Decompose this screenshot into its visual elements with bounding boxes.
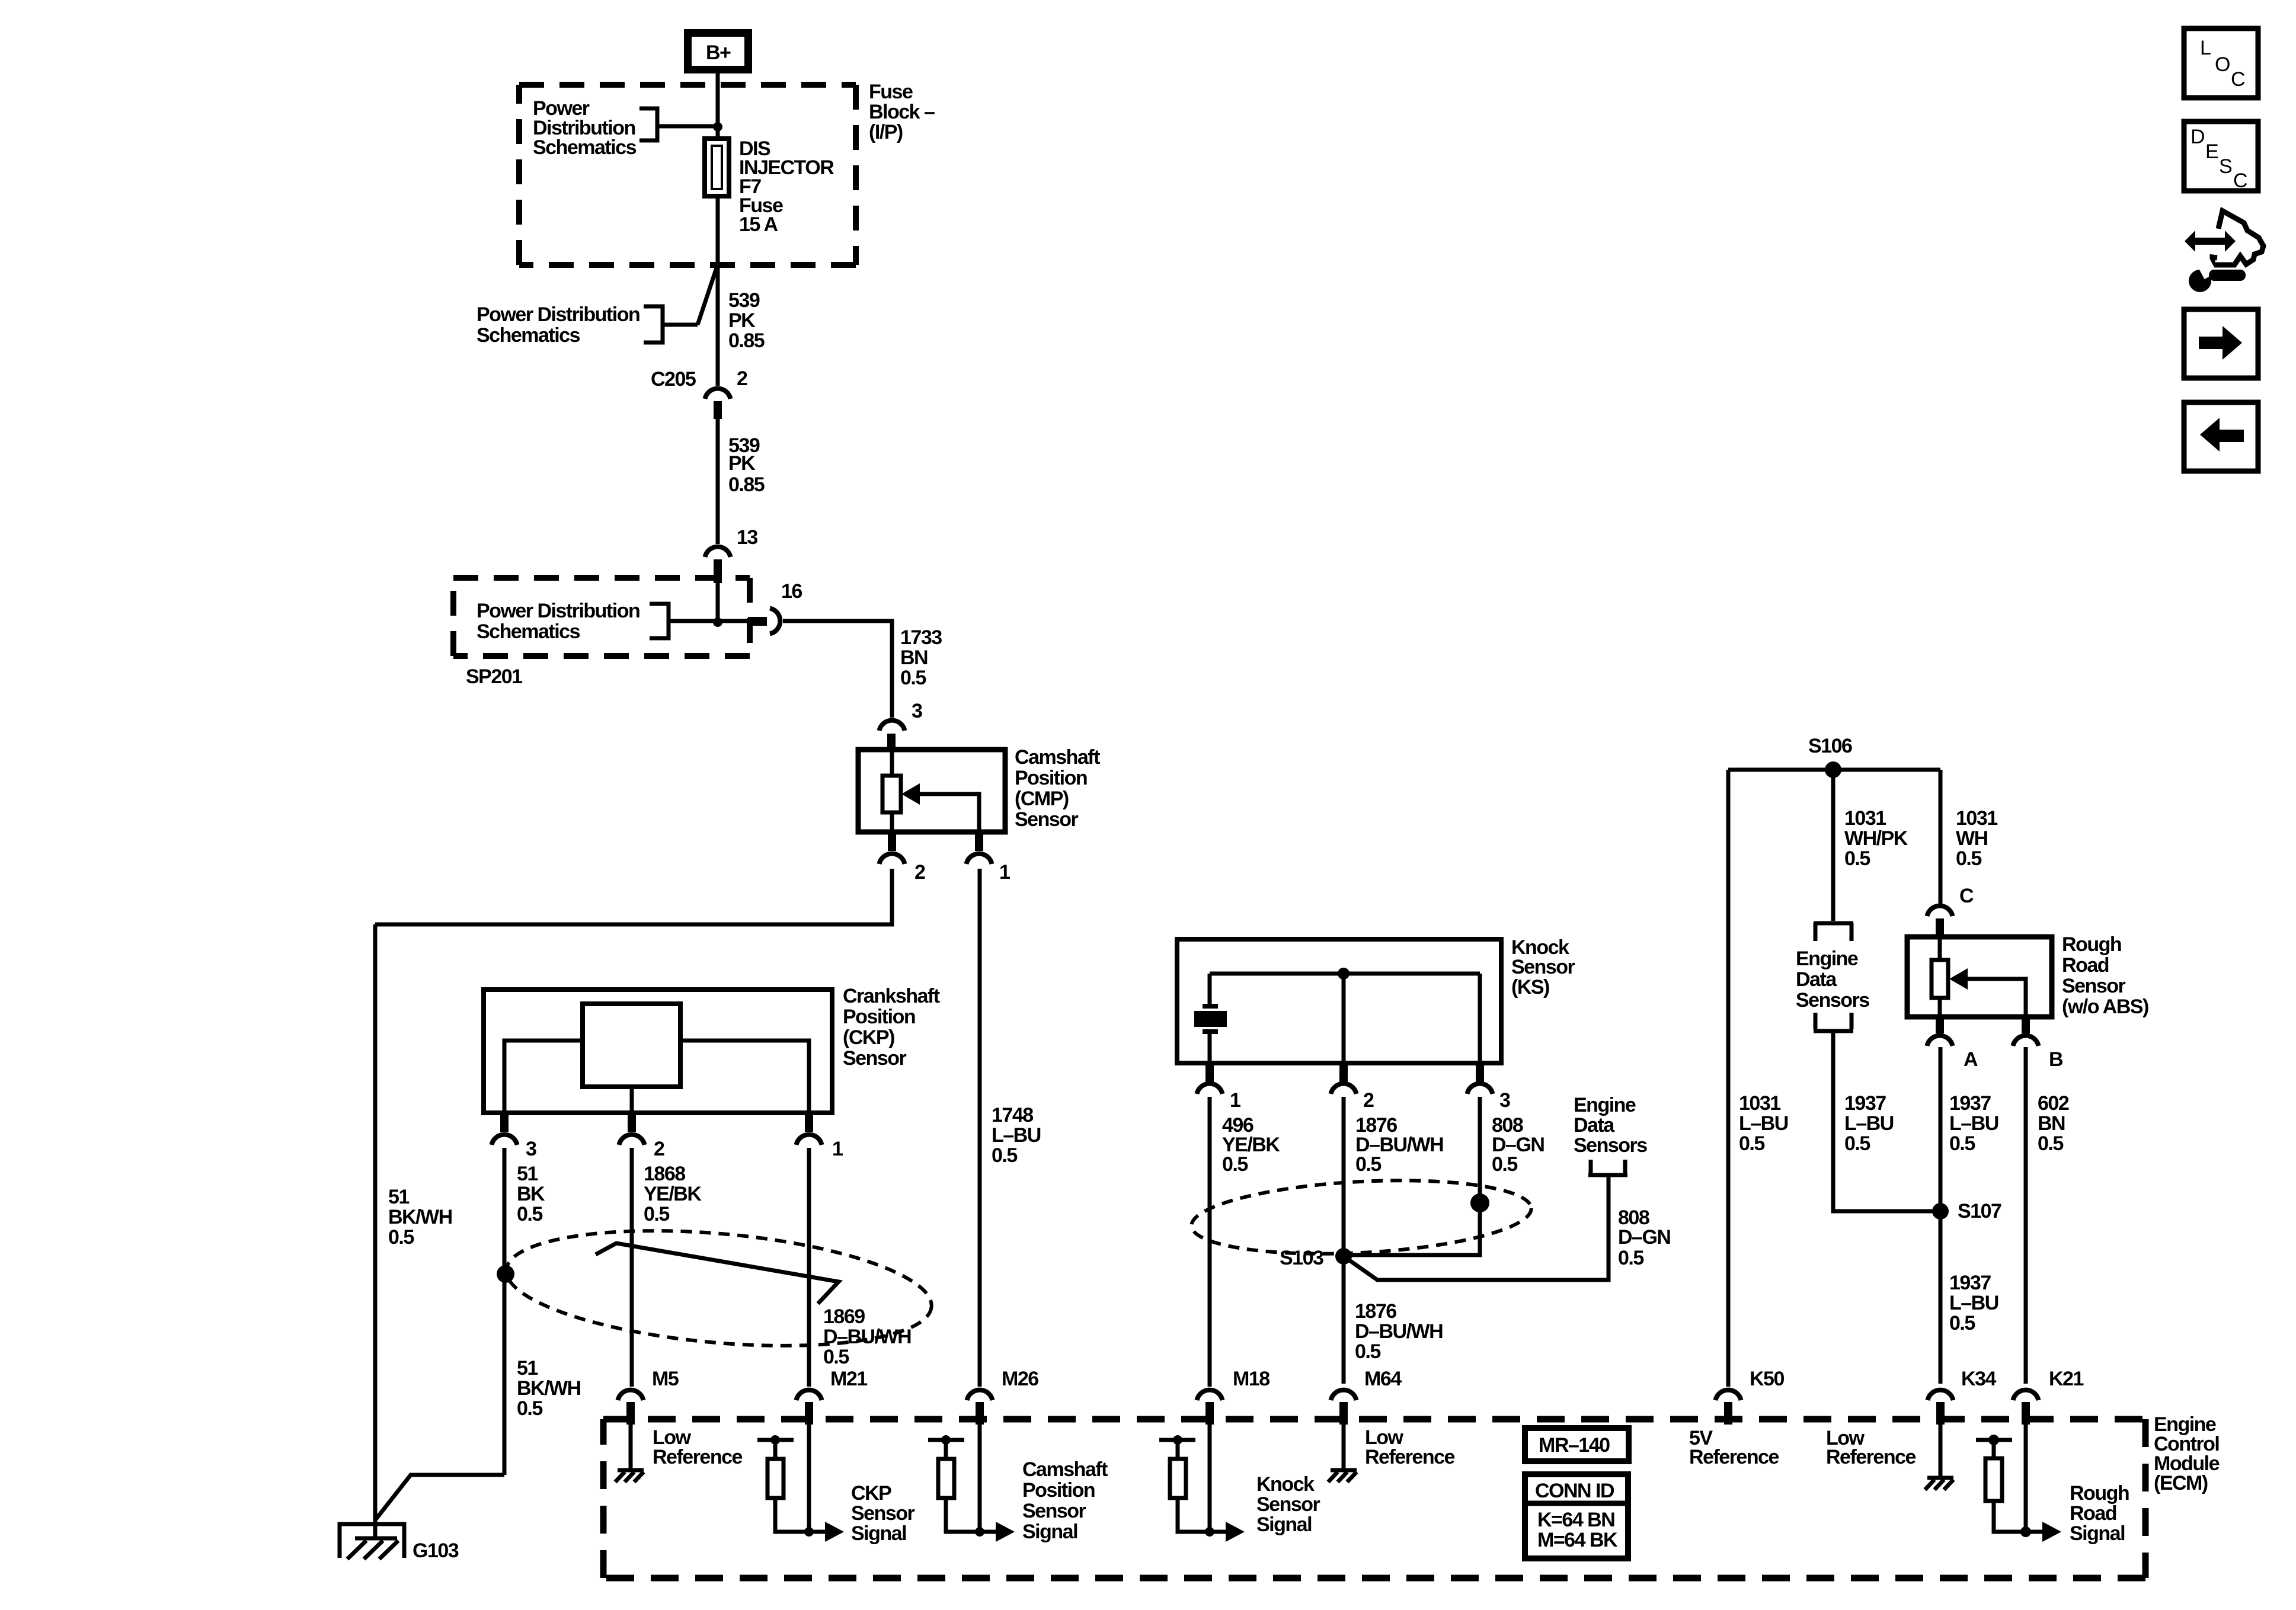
bracket: power distribution callout 2 xyxy=(644,268,717,343)
svg-text:M21: M21 xyxy=(830,1368,867,1390)
wire CMP pin 1 down to M26 xyxy=(978,869,982,1387)
svg-text:0.5: 0.5 xyxy=(1355,1153,1381,1176)
node: fuse block feed junction xyxy=(713,122,722,132)
svg-text:13: 13 xyxy=(737,526,757,549)
KS internal verticals xyxy=(1344,974,1480,1063)
double arrow xyxy=(2185,231,2195,252)
svg-text:Reference: Reference xyxy=(1689,1446,1779,1468)
svg-text:3: 3 xyxy=(912,700,922,722)
svg-text:Rough: Rough xyxy=(2070,1482,2129,1505)
svg-text:D: D xyxy=(2191,126,2204,148)
svg-text:Power Distribution: Power Distribution xyxy=(477,600,639,622)
CKP shield ellipse xyxy=(501,1215,936,1361)
svg-text:WH: WH xyxy=(1956,827,1988,850)
svg-text:Data: Data xyxy=(1796,968,1837,991)
svg-text:L: L xyxy=(2200,37,2211,59)
connector K50 xyxy=(1716,1368,1785,1425)
arrow knock sensor signal xyxy=(1210,1522,1245,1542)
ECM dashed box xyxy=(603,1419,2145,1578)
svg-text:BK/WH: BK/WH xyxy=(517,1377,581,1400)
svg-text:L–BU: L–BU xyxy=(1844,1112,1894,1135)
label: Low Reference (K34) xyxy=(1826,1427,1916,1468)
svg-text:0.5: 0.5 xyxy=(1844,1132,1870,1155)
svg-text:0.5: 0.5 xyxy=(1956,847,1981,870)
label: CKP Sensor Signal xyxy=(851,1482,915,1545)
svg-text:(CMP): (CMP) xyxy=(1015,788,1069,810)
label: 1748 L-BU 0.5 xyxy=(992,1104,1041,1167)
svg-text:L–BU: L–BU xyxy=(1949,1112,1998,1135)
label: Knock Sensor Signal xyxy=(1256,1473,1320,1536)
svg-text:C: C xyxy=(2231,68,2245,91)
svg-text:51: 51 xyxy=(517,1357,538,1379)
label: Knock Sensor (KS) xyxy=(1511,936,1575,998)
svg-text:0.5: 0.5 xyxy=(992,1144,1017,1167)
CKP internal wires xyxy=(504,1041,809,1113)
KS piezo element xyxy=(1194,974,1227,1063)
svg-text:M18: M18 xyxy=(1233,1368,1269,1390)
svg-text:S106: S106 xyxy=(1808,735,1852,757)
svg-text:E: E xyxy=(2205,140,2218,163)
svg-text:0.5: 0.5 xyxy=(823,1346,849,1368)
label: 51 BK/WH 0.5 (riser) xyxy=(388,1186,452,1249)
svg-text:0.5: 0.5 xyxy=(2038,1132,2063,1155)
svg-text:Block –: Block – xyxy=(869,101,935,123)
label: 5V Reference xyxy=(1689,1427,1779,1468)
svg-text:Road: Road xyxy=(2070,1502,2116,1525)
wire K34 to low ref ground xyxy=(1939,1425,1943,1477)
CMP internal resistor xyxy=(882,750,901,832)
svg-text:Schematics: Schematics xyxy=(533,136,637,159)
svg-text:Fuse: Fuse xyxy=(869,81,913,103)
CMP sensor box xyxy=(858,750,1005,832)
svg-text:G103: G103 xyxy=(412,1539,459,1562)
svg-text:1868: 1868 xyxy=(644,1163,685,1185)
KS shield ellipse xyxy=(1189,1173,1533,1262)
svg-text:0.5: 0.5 xyxy=(1844,847,1870,870)
node: shield to drain dot xyxy=(497,1265,514,1283)
node: CMP signal junction xyxy=(975,1527,984,1537)
connector rough road pin B xyxy=(2013,1017,2064,1071)
label: 539 PK 0.85 (upper) xyxy=(728,289,765,352)
svg-text:C: C xyxy=(2233,169,2247,192)
connector M26 xyxy=(967,1368,1039,1425)
connector CKP pin 3 xyxy=(492,1114,537,1160)
svg-text:0.5: 0.5 xyxy=(1222,1153,1248,1176)
connector rough road pin A xyxy=(1927,1017,1978,1071)
svg-text:51: 51 xyxy=(388,1186,409,1208)
chassis ground (M5 low reference) xyxy=(615,1470,644,1482)
wire M18 to knock signal arrow xyxy=(1208,1425,1212,1532)
svg-text:15 A: 15 A xyxy=(739,213,778,236)
svg-text:Camshaft: Camshaft xyxy=(1015,746,1100,769)
svg-text:Road: Road xyxy=(2062,954,2109,977)
wire 16 to CMP (1733 BN) xyxy=(783,621,892,718)
connector CMP pin 2 xyxy=(880,833,926,884)
label: Camshaft Position Sensor Signal xyxy=(1022,1458,1108,1543)
svg-text:Sensor: Sensor xyxy=(1022,1500,1086,1522)
node: splice S107 xyxy=(1932,1203,1949,1219)
svg-text:BK/WH: BK/WH xyxy=(388,1206,452,1228)
chassis ground (K34 low reference) xyxy=(1925,1478,1953,1490)
svg-text:PK: PK xyxy=(728,452,756,475)
svg-text:(ECM): (ECM) xyxy=(2154,1472,2208,1494)
icon back arrow button xyxy=(2184,402,2258,471)
svg-text:B+: B+ xyxy=(706,41,731,64)
CKP shield drain zigzag xyxy=(596,1243,839,1304)
svg-text:(w/o ABS): (w/o ABS) xyxy=(2062,996,2148,1018)
node: rough road signal junction xyxy=(2020,1526,2031,1537)
svg-text:Knock: Knock xyxy=(1256,1473,1315,1496)
wire KS pin 2 to S103 xyxy=(1342,1097,1346,1256)
wire pin A to S107 and K34 xyxy=(1939,1047,1943,1384)
svg-text:M64: M64 xyxy=(1364,1368,1402,1390)
rough road sensor box xyxy=(1907,937,2052,1017)
CKP inner element box xyxy=(583,1004,680,1087)
svg-text:0.5: 0.5 xyxy=(900,667,926,689)
wire M21 to CKP signal arrow xyxy=(807,1425,811,1532)
connector K34 xyxy=(1928,1368,1997,1425)
svg-text:0.5: 0.5 xyxy=(1949,1312,1975,1334)
svg-text:602: 602 xyxy=(2038,1092,2069,1115)
label: 51 BK/WH 0.5 (to ground) xyxy=(517,1357,581,1420)
fuse block dashed box (I/P) xyxy=(519,85,856,265)
svg-text:YE/BK: YE/BK xyxy=(644,1183,702,1205)
node: KS internal junction xyxy=(1338,968,1350,980)
label: C205 and pin 2 xyxy=(651,367,747,391)
svg-text:L–BU: L–BU xyxy=(1949,1292,1998,1314)
svg-text:0.85: 0.85 xyxy=(728,329,765,352)
connector pin 13 xyxy=(705,547,731,583)
svg-text:Position: Position xyxy=(1022,1479,1095,1502)
svg-text:2: 2 xyxy=(914,861,925,884)
label: 1031 WH 0.5 xyxy=(1956,807,1997,870)
CONN ID box xyxy=(1525,1474,1628,1558)
svg-text:1937: 1937 xyxy=(1844,1092,1886,1115)
svg-text:1: 1 xyxy=(1230,1089,1240,1112)
icon LOC button xyxy=(2184,28,2258,98)
arrow CKP sensor signal xyxy=(809,1522,844,1542)
label: Power Distribution Schematics (539 callout) xyxy=(477,303,639,347)
label: Rough Road Signal xyxy=(2070,1482,2129,1545)
svg-text:Sensor: Sensor xyxy=(2062,975,2126,997)
svg-text:SP201: SP201 xyxy=(466,665,522,688)
svg-text:Power Distribution: Power Distribution xyxy=(477,303,639,326)
connector M5 xyxy=(618,1368,679,1425)
svg-text:51: 51 xyxy=(517,1163,538,1185)
label: 602 BN 0.5 xyxy=(2038,1092,2069,1155)
svg-text:Camshaft: Camshaft xyxy=(1022,1458,1108,1481)
svg-text:1876: 1876 xyxy=(1355,1300,1396,1323)
svg-text:A: A xyxy=(1964,1048,1978,1071)
connector CKP pin 2 xyxy=(619,1114,665,1160)
svg-text:O: O xyxy=(2215,53,2230,76)
label: 808 D-GN 0.5 (engine data) xyxy=(1618,1206,1670,1269)
wire left riser to G103 xyxy=(373,924,378,1537)
wire S106 to K50 xyxy=(1726,770,1731,1387)
svg-text:1748: 1748 xyxy=(992,1104,1033,1126)
ground G103 xyxy=(340,1524,404,1559)
wrench xyxy=(2189,270,2211,292)
svg-text:WH/PK: WH/PK xyxy=(1844,827,1908,850)
svg-text:M26: M26 xyxy=(1002,1368,1038,1390)
node: splice S106 xyxy=(1825,761,1841,778)
svg-text:BN: BN xyxy=(2038,1112,2065,1135)
label: 1937 L-BU 0.5 (engine data) xyxy=(1844,1092,1894,1155)
node: SP201 splice dot xyxy=(713,617,722,627)
svg-text:PK: PK xyxy=(728,309,756,332)
svg-text:1031: 1031 xyxy=(1844,807,1886,830)
svg-text:D–BU/WH: D–BU/WH xyxy=(1355,1320,1443,1343)
label: 1937 L-BU 0.5 (below S107) xyxy=(1949,1272,1998,1334)
resistor pullup (rough road signal) xyxy=(1976,1435,2026,1532)
svg-text:Sensor: Sensor xyxy=(1511,956,1575,978)
svg-text:BK: BK xyxy=(517,1183,545,1205)
wire pin B to K21 xyxy=(2024,1047,2028,1384)
svg-text:0.5: 0.5 xyxy=(1355,1340,1380,1363)
svg-text:(KS): (KS) xyxy=(1511,976,1549,998)
svg-text:3: 3 xyxy=(1499,1089,1510,1112)
svg-text:1: 1 xyxy=(999,861,1010,884)
MR-140 reference box xyxy=(1525,1428,1629,1461)
rough road wiper arrow xyxy=(1949,968,2026,1017)
svg-text:Engine: Engine xyxy=(1574,1094,1636,1116)
svg-text:Rough: Rough xyxy=(2062,933,2121,956)
svg-text:2: 2 xyxy=(1363,1089,1374,1112)
label: Rough Road Sensor (w/o ABS) xyxy=(2062,933,2148,1018)
svg-text:539: 539 xyxy=(728,289,760,312)
wire KS pin 1 to M18 xyxy=(1208,1097,1212,1387)
wire KS pin 3 to corner xyxy=(1344,1097,1480,1255)
wire C205 to conn 13 xyxy=(716,419,720,544)
svg-text:L–BU: L–BU xyxy=(992,1124,1041,1147)
svg-text:0.5: 0.5 xyxy=(517,1203,542,1225)
KS internal bus xyxy=(1210,972,1480,976)
SP201 dashed box xyxy=(453,578,750,656)
connector CMP pin 1 xyxy=(967,833,1011,884)
svg-text:Reference: Reference xyxy=(653,1446,743,1468)
label: 496 YE/BK 0.5 xyxy=(1222,1114,1280,1176)
svg-text:K=64 BN: K=64 BN xyxy=(1537,1509,1614,1531)
svg-text:S103: S103 xyxy=(1280,1247,1323,1269)
svg-text:16: 16 xyxy=(781,580,802,603)
CMP wiper arrow xyxy=(901,783,979,832)
label: 1868 YE/BK 0.5 xyxy=(644,1163,702,1225)
svg-text:K34: K34 xyxy=(1961,1368,1996,1390)
label: 51 BK 0.5 xyxy=(517,1163,545,1225)
svg-text:S: S xyxy=(2219,155,2232,178)
connector M18 xyxy=(1197,1368,1270,1425)
label: Engine Data Sensors (knock) xyxy=(1574,1094,1647,1157)
svg-text:Schematics: Schematics xyxy=(477,324,580,347)
wire CKP pin 1 down to M21 xyxy=(807,1148,811,1387)
connector C205 pin 2 xyxy=(705,389,731,419)
wire S103 to engine data sensors xyxy=(1344,1177,1609,1280)
svg-text:K21: K21 xyxy=(2049,1368,2083,1390)
bracket: power distribution callout 1 xyxy=(639,108,714,140)
engine data sensors fork (knock) xyxy=(1588,1160,1627,1175)
node: KS shield to drain dot xyxy=(1470,1193,1489,1212)
label: Engine Control Module (ECM) xyxy=(2154,1413,2220,1494)
label: Low Reference (M5) xyxy=(653,1426,743,1468)
wire M5 to low ref ground xyxy=(629,1425,633,1469)
node: splice S103 xyxy=(1335,1248,1352,1265)
label: Fuse Block - (I/P) xyxy=(869,81,935,143)
svg-text:2: 2 xyxy=(737,367,747,390)
connector KS pin 3 xyxy=(1467,1064,1511,1112)
wire S106 to engine data sensors xyxy=(1831,770,1835,921)
svg-text:D–GN: D–GN xyxy=(1618,1226,1670,1249)
label: 1031 L-BU 0.5 xyxy=(1739,1092,1788,1155)
svg-text:D–BU/WH: D–BU/WH xyxy=(823,1326,911,1348)
svg-text:C205: C205 xyxy=(651,368,696,391)
connector CMP pin 3 xyxy=(880,721,905,751)
label: 808 D-GN 0.5 (pin 3) xyxy=(1492,1114,1544,1176)
rough road internal resistor xyxy=(1932,937,1948,1017)
wire fuse to C205 xyxy=(716,196,720,386)
svg-text:C: C xyxy=(1959,885,1974,907)
CKP sensor box xyxy=(484,990,832,1113)
label: 1876 D-BU/WH 0.5 (upper) xyxy=(1355,1114,1443,1176)
svg-text:Reference: Reference xyxy=(1365,1446,1455,1468)
wire S106 bus xyxy=(1728,768,1940,772)
svg-text:K50: K50 xyxy=(1750,1368,1784,1390)
fuse F7 DIS INJECTOR 15A xyxy=(705,139,729,196)
svg-text:Crankshaft: Crankshaft xyxy=(843,985,940,1007)
label: Camshaft Position (CMP) Sensor xyxy=(1015,746,1100,831)
label: Power Distribution Schematics (fuse block) xyxy=(533,97,637,159)
connector K21 xyxy=(2013,1368,2084,1425)
wire conn13 into SP201 xyxy=(716,583,720,621)
svg-text:0.5: 0.5 xyxy=(517,1397,542,1420)
label: 1031 WH/PK 0.5 xyxy=(1844,807,1908,870)
node: CKP signal junction xyxy=(804,1527,814,1537)
knock sensor box xyxy=(1177,939,1501,1063)
svg-text:Sensors: Sensors xyxy=(1574,1134,1647,1157)
svg-text:CKP: CKP xyxy=(851,1482,891,1505)
wire K21 to rough road signal arrow xyxy=(2024,1425,2028,1532)
svg-text:MR–140: MR–140 xyxy=(1539,1434,1610,1457)
label: 1869 D-BU/WH 0.5 xyxy=(823,1305,911,1368)
connector M21 xyxy=(797,1368,868,1425)
svg-text:Signal: Signal xyxy=(1256,1513,1312,1536)
arrow camshaft position sensor signal xyxy=(980,1522,1015,1542)
svg-text:Schematics: Schematics xyxy=(477,620,580,643)
svg-text:Signal: Signal xyxy=(851,1522,906,1545)
engine data sensors fork top (right) xyxy=(1814,923,1853,941)
svg-text:Sensor: Sensor xyxy=(843,1047,907,1070)
svg-text:1937: 1937 xyxy=(1949,1272,1991,1294)
svg-text:0.5: 0.5 xyxy=(1492,1153,1517,1176)
icon diagnostic car with wrench xyxy=(2185,211,2263,292)
svg-text:Reference: Reference xyxy=(1826,1446,1916,1468)
svg-text:B: B xyxy=(2049,1048,2063,1071)
wire M64 to low ref ground xyxy=(1342,1425,1346,1469)
svg-text:1031: 1031 xyxy=(1956,807,1997,830)
wire B+ to fuse xyxy=(716,73,720,139)
svg-text:M=64 BK: M=64 BK xyxy=(1537,1529,1618,1551)
svg-text:Sensor: Sensor xyxy=(851,1502,915,1525)
wire CKP pin 2 down to M5 xyxy=(630,1148,634,1387)
svg-text:1: 1 xyxy=(832,1138,843,1160)
svg-text:0.5: 0.5 xyxy=(388,1226,414,1249)
svg-text:Sensors: Sensors xyxy=(1796,989,1869,1012)
wire CKP pin 3 to ground jog xyxy=(376,1475,504,1519)
svg-text:L–BU: L–BU xyxy=(1739,1112,1788,1135)
car outline xyxy=(2212,211,2263,265)
svg-text:Position: Position xyxy=(843,1006,915,1028)
resistor pullup (knock signal) xyxy=(1159,1435,1210,1532)
svg-text:1031: 1031 xyxy=(1739,1092,1780,1115)
icon next arrow button xyxy=(2184,309,2258,378)
icon DESC button xyxy=(2184,121,2258,192)
node: knock signal junction xyxy=(1205,1527,1214,1537)
wire engine data sensors to S107 xyxy=(1833,1031,1940,1211)
label: DIS INJECTOR F7 Fuse 15 A xyxy=(739,137,834,236)
wire CKP pin 3 down xyxy=(503,1148,507,1475)
svg-text:(CKP): (CKP) xyxy=(843,1026,894,1049)
label: Engine Data Sensors (right) xyxy=(1796,948,1869,1012)
svg-text:1937: 1937 xyxy=(1949,1092,1991,1115)
svg-text:M5: M5 xyxy=(652,1368,679,1390)
svg-text:S107: S107 xyxy=(1958,1200,2001,1222)
engine data sensors fork bottom (right) xyxy=(1814,1013,1853,1031)
svg-text:0.85: 0.85 xyxy=(728,473,765,496)
connector M64 xyxy=(1331,1368,1402,1425)
connector pin 16 xyxy=(748,609,780,634)
svg-text:0.5: 0.5 xyxy=(1739,1132,1764,1155)
connector rough road pin C xyxy=(1927,906,1953,937)
label: Power Distribution Schematics (SP201) xyxy=(477,600,639,643)
chassis ground (M64 low reference) xyxy=(1328,1470,1357,1482)
connector KS pin 2 xyxy=(1331,1064,1374,1112)
svg-text:Data: Data xyxy=(1574,1114,1615,1137)
label: Crankshaft Position (CKP) Sensor xyxy=(843,985,940,1070)
wire CMP pin 2 to left riser xyxy=(375,869,892,924)
svg-text:Signal: Signal xyxy=(1022,1521,1077,1543)
resistor pullup (CMP signal) xyxy=(928,1435,980,1532)
connector KS pin 1 xyxy=(1197,1064,1241,1112)
label: 1733 BN 0.5 xyxy=(900,626,942,689)
resistor pullup (CKP signal) xyxy=(757,1435,809,1532)
label: 539 PK 0.85 (lower) xyxy=(728,434,765,496)
label: 1937 L-BU 0.5 (pin A) xyxy=(1949,1092,1998,1155)
bracket: power distribution callout 3 xyxy=(650,604,751,638)
label: 1876 D-BU/WH 0.5 (lower) xyxy=(1355,1300,1443,1363)
svg-text:BN: BN xyxy=(900,646,928,669)
svg-text:CONN ID: CONN ID xyxy=(1535,1480,1614,1502)
svg-text:Signal: Signal xyxy=(2070,1522,2125,1545)
wire S103 to M64 xyxy=(1342,1256,1346,1384)
svg-text:0.5: 0.5 xyxy=(1618,1247,1643,1269)
svg-text:0.5: 0.5 xyxy=(1949,1132,1975,1155)
svg-text:Sensor: Sensor xyxy=(1015,808,1079,831)
svg-text:1869: 1869 xyxy=(823,1305,865,1328)
svg-text:1733: 1733 xyxy=(900,626,942,649)
svg-text:Position: Position xyxy=(1015,767,1087,789)
connector CKP pin 1 xyxy=(797,1114,843,1160)
svg-text:Engine: Engine xyxy=(1796,948,1858,970)
svg-text:Sensor: Sensor xyxy=(1256,1493,1320,1516)
svg-text:(I/P): (I/P) xyxy=(869,121,903,143)
arrow rough road signal xyxy=(2026,1522,2061,1542)
svg-text:0.5: 0.5 xyxy=(644,1203,669,1225)
wire S106 to rough road C xyxy=(1939,770,1943,905)
label: Low Reference (M64) xyxy=(1365,1426,1455,1468)
svg-text:2: 2 xyxy=(654,1138,664,1160)
battery feed B+ symbol xyxy=(684,29,752,73)
svg-text:3: 3 xyxy=(526,1138,536,1160)
wire M26 to CMP signal arrow xyxy=(978,1425,982,1532)
